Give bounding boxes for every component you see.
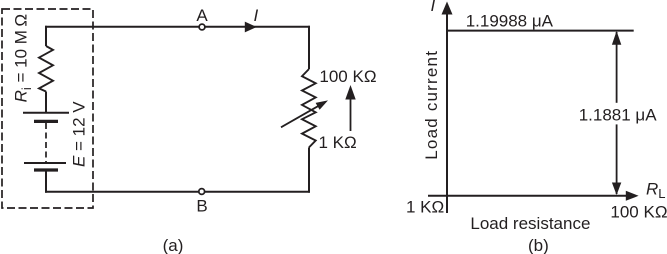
svg-text:B: B [196,196,207,215]
svg-text:100 KΩ: 100 KΩ [319,67,376,86]
svg-text:I: I [254,6,259,25]
svg-text:1.1881 μA: 1.1881 μA [579,106,658,125]
svg-text:(b): (b) [528,236,549,254]
svg-text:E = 12 V: E = 12 V [69,101,88,167]
svg-text:I: I [431,0,436,15]
svg-text:Load resistance: Load resistance [470,214,590,233]
svg-text:(a): (a) [163,236,184,254]
svg-text:Ri = 10 M Ω: Ri = 10 M Ω [12,14,34,102]
svg-text:100 KΩ: 100 KΩ [610,203,667,222]
svg-text:RL: RL [646,180,666,202]
svg-text:1 KΩ: 1 KΩ [319,133,357,152]
svg-text:1.19988 μA: 1.19988 μA [466,11,554,30]
svg-text:Load current: Load current [422,50,441,160]
svg-text:1 KΩ: 1 KΩ [406,198,444,217]
svg-text:A: A [196,6,208,25]
